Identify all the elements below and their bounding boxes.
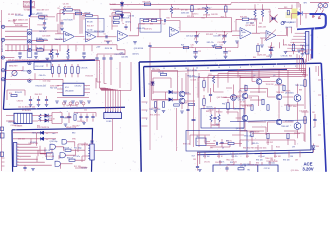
svg-text:ZD75 BC184: ZD75 BC184	[187, 70, 197, 72]
svg-text:R92 1K: R92 1K	[217, 156, 224, 158]
ground G28	[198, 170, 202, 172]
svg-text:R12 4K7: R12 4K7	[114, 10, 121, 12]
svg-text:R21 1K: R21 1K	[9, 121, 16, 123]
wire thick stub left	[297, 28, 314, 29]
svg-text:8: 8	[240, 67, 241, 69]
svg-text:ZD75 10K: ZD75 10K	[15, 15, 24, 17]
wire d30 stub	[313, 144, 315, 153]
wire tone row	[172, 18, 232, 32]
svg-text:C90 2K2: C90 2K2	[74, 85, 81, 87]
capacitor C76	[213, 117, 216, 118]
wire diode string	[121, 1, 123, 22]
svg-text:R5: R5	[58, 8, 60, 10]
ground G5	[195, 41, 199, 43]
svg-text:J5: J5	[310, 35, 312, 37]
svg-text:ZD45 22K: ZD45 22K	[258, 27, 267, 29]
svg-text:D25 0.22: D25 0.22	[186, 36, 193, 38]
svg-text:D82 47u: D82 47u	[207, 42, 214, 44]
svg-text:D17 100p: D17 100p	[251, 165, 259, 167]
capacitor C12	[164, 19, 165, 22]
capacitor C23 flat	[223, 52, 228, 53]
pot VOL	[12, 71, 17, 76]
svg-text:ZD65 2K2: ZD65 2K2	[32, 133, 40, 135]
svg-text:C5: C5	[104, 34, 106, 36]
svg-text:ZD74 100p: ZD74 100p	[39, 39, 48, 41]
capacitor C52	[79, 116, 82, 117]
wire bus fan lines	[238, 68, 306, 69]
capacitor C5	[106, 35, 107, 38]
gate IC5A	[50, 144, 55, 149]
wire input bus	[23, 8, 35, 16]
resistor R41 vertical	[261, 10, 263, 17]
resistor R3	[37, 39, 44, 41]
wire bus fan right risers	[296, 54, 298, 69]
ground G23	[82, 123, 86, 125]
wire mid drop	[237, 42, 239, 48]
svg-text:C86: C86	[290, 156, 293, 158]
svg-text:C36 10K: C36 10K	[81, 67, 89, 69]
ground G20	[79, 101, 83, 103]
svg-text:C12 1K: C12 1K	[264, 168, 271, 170]
variable cap VC1	[194, 36, 198, 37]
svg-text:D10 100p: D10 100p	[43, 81, 51, 83]
transformer T1	[14, 113, 32, 123]
svg-text:D2: D2	[46, 139, 48, 141]
svg-text:R8 10K: R8 10K	[85, 12, 92, 14]
svg-text:D11 560R: D11 560R	[299, 111, 308, 113]
svg-text:D1: D1	[46, 133, 48, 135]
ground G15	[194, 56, 198, 58]
wire mic row 2	[5, 35, 27, 37]
transistor Q6	[242, 93, 248, 99]
svg-text:10: 10	[218, 67, 220, 69]
svg-text:R45: R45	[253, 57, 256, 59]
svg-text:TP7: TP7	[210, 147, 213, 149]
ground G25	[154, 111, 158, 113]
svg-text:ZD72 1N4148: ZD72 1N4148	[146, 19, 157, 21]
svg-text:ZD36 560R: ZD36 560R	[50, 86, 60, 88]
svg-text:TR27 560R: TR27 560R	[63, 19, 73, 21]
wire top bus A	[110, 3, 231, 4]
wire row link	[74, 113, 96, 117]
svg-text:TR40 2K2: TR40 2K2	[39, 19, 47, 21]
svg-text:Q96 4K7: Q96 4K7	[289, 22, 296, 24]
diode D3	[120, 2, 123, 5]
wire above preamp border	[6, 59, 95, 61]
svg-text:R26: R26	[181, 45, 184, 47]
svg-text:C60 47u: C60 47u	[39, 75, 46, 77]
transistor Q7	[276, 94, 282, 100]
svg-text:TR12 100n: TR12 100n	[295, 85, 304, 87]
wire ladder mesh 3	[279, 84, 298, 138]
module box FX	[34, 62, 51, 69]
svg-text:R20 0.22: R20 0.22	[15, 92, 22, 94]
svg-text:ZD46 560R: ZD46 560R	[300, 45, 310, 47]
op-amp U1B	[86, 32, 96, 42]
capacitor C17	[102, 58, 105, 59]
svg-text:C1 22K: C1 22K	[190, 80, 197, 82]
capacitor C15	[82, 53, 85, 54]
wire fan from J7	[17, 143, 31, 145]
wire power box verticals	[240, 70, 288, 135]
wire q legs	[181, 78, 183, 109]
capacitor C50 elec	[60, 116, 64, 117]
resistor R81a zig	[218, 115, 220, 122]
capacitor C95	[220, 142, 223, 143]
ground G17	[55, 101, 59, 103]
wire right column mesh	[302, 69, 309, 142]
capacitor C42	[45, 99, 48, 100]
capacitor C60	[23, 167, 26, 168]
svg-text:TR18 10K: TR18 10K	[276, 92, 285, 94]
wire mic row 4	[5, 49, 58, 52]
svg-text:R105: R105	[276, 147, 280, 149]
wire stage link right	[139, 19, 161, 24]
connector left edge lower	[0, 133, 4, 138]
wire J5 bottom tails	[306, 54, 311, 62]
svg-text:INPUT PCB: INPUT PCB	[2, 41, 4, 52]
svg-text:C44 10u R55 4K7 C45: C44 10u R55 4K7 C45	[18, 107, 35, 109]
pot P3 small	[281, 22, 284, 25]
svg-text:Q11 2K2: Q11 2K2	[121, 57, 128, 59]
svg-text:D79 10K: D79 10K	[203, 15, 211, 17]
svg-text:R22: R22	[202, 18, 205, 20]
diode D23 filled	[151, 82, 154, 85]
svg-text:ZD94 100p: ZD94 100p	[81, 144, 90, 146]
svg-text:C63 1K: C63 1K	[208, 109, 215, 111]
capacitor C83	[196, 166, 199, 167]
wire ladder mesh 4	[236, 89, 276, 132]
diode D30	[312, 146, 315, 149]
capacitor C54	[91, 116, 94, 117]
transistor Q4	[256, 79, 262, 85]
wire speaker pair	[198, 152, 200, 166]
jack column J2 switching	[27, 30, 32, 58]
svg-text:2: 2	[146, 111, 147, 113]
ground G19	[71, 101, 75, 103]
ground G18	[63, 101, 67, 103]
resistor R80a zig	[210, 115, 212, 122]
transistor Q11 output	[294, 123, 301, 130]
transistor Q1	[179, 91, 185, 97]
svg-text:14: 14	[174, 68, 176, 70]
jack J1 input	[1, 25, 4, 28]
wire right border ticks	[318, 80, 321, 135]
resistor R8 fb	[86, 14, 93, 16]
svg-text:TR93 4K7: TR93 4K7	[21, 71, 29, 73]
capacitor C31	[301, 49, 304, 50]
ground G9	[282, 22, 286, 24]
wire fan into J5	[295, 32, 304, 34]
svg-text:TR12 22K: TR12 22K	[226, 159, 235, 161]
wire fb U3A	[236, 19, 260, 33]
wire left edge ticks	[2, 158, 5, 166]
svg-text:C22: C22	[198, 51, 201, 53]
svg-text:ZD84 4K7: ZD84 4K7	[283, 44, 291, 46]
svg-text:C87: C87	[295, 159, 298, 161]
wire diff out	[185, 73, 195, 101]
svg-text:6: 6	[262, 66, 263, 68]
ground G12	[269, 55, 273, 57]
wire IC pins	[57, 86, 90, 93]
transistor Q2	[179, 98, 185, 104]
resistor R79b box	[174, 104, 180, 106]
diode D4	[120, 15, 123, 18]
svg-text:SW1 PAD: SW1 PAD	[15, 24, 24, 27]
connector J5 header	[306, 32, 309, 55]
highlight yellow patch main	[292, 9, 298, 19]
wire U2B out	[180, 31, 232, 33]
svg-text:Q58 2K2: Q58 2K2	[266, 142, 273, 144]
capacitor C51 elec	[67, 116, 71, 117]
connector left edge upper	[0, 127, 3, 131]
svg-text:Q4: Q4	[253, 75, 255, 77]
diode D21	[169, 98, 172, 101]
wire jack feed	[29, 18, 31, 30]
connector left edge lower 2	[0, 152, 3, 156]
wire inner right bundle	[316, 66, 319, 76]
svg-text:R11 100p: R11 100p	[74, 148, 82, 150]
diode D8 blue	[298, 11, 302, 15]
svg-text:ZD66 47K: ZD66 47K	[137, 28, 146, 30]
wire bundle top feeds	[96, 62, 131, 90]
resistor R16 vertical	[51, 49, 53, 56]
svg-text:TR54 1K: TR54 1K	[44, 116, 52, 118]
sub box relay B	[186, 131, 247, 152]
connector J7 footswitch	[13, 143, 16, 167]
op-amp U2B	[170, 27, 180, 37]
wire bus B	[110, 9, 270, 22]
wire preamp top stub	[95, 60, 100, 66]
svg-text:R65 10K: R65 10K	[63, 147, 70, 149]
svg-text:FX LOOP: FX LOOP	[36, 66, 45, 68]
ground G14	[212, 46, 216, 48]
svg-text:C9 1K: C9 1K	[73, 113, 79, 115]
resistor R101 v	[245, 85, 247, 91]
wire thick output hook	[310, 14, 326, 28]
connector J8 on border	[90, 144, 94, 160]
node dot tone 1	[196, 31, 197, 32]
svg-text:R95 10K: R95 10K	[283, 159, 290, 161]
resistor R51 v	[58, 67, 60, 74]
pot P2 top right	[323, 3, 327, 7]
ground G7	[235, 41, 239, 43]
svg-text:Q5: Q5	[273, 75, 275, 77]
pot P1 top right	[318, 3, 322, 7]
diode LED2	[40, 137, 43, 140]
svg-text:C11 10K: C11 10K	[181, 102, 189, 104]
capacitor C72	[186, 109, 189, 110]
resistor R103 v	[283, 85, 285, 91]
resistor R81 v	[267, 105, 269, 111]
wire fb U2A	[112, 13, 130, 31]
svg-text:4: 4	[284, 66, 285, 68]
LED indicator circles	[63, 102, 66, 105]
capacitor C14	[34, 53, 37, 54]
capacitor C1	[49, 53, 52, 54]
svg-text:Q46 0.22: Q46 0.22	[218, 35, 225, 37]
capacitor C4	[60, 23, 63, 24]
ground G11	[297, 50, 301, 52]
svg-text:R80 1K: R80 1K	[206, 111, 212, 113]
wire U3A link	[232, 31, 240, 36]
resistor R85 v	[287, 133, 289, 139]
wire vas mesh	[214, 84, 234, 109]
box power amp inner right border	[310, 68, 311, 151]
ground G10	[284, 52, 288, 54]
jack J1b input	[1, 38, 4, 41]
svg-text:5: 5	[273, 66, 274, 68]
svg-text:R89 47u: R89 47u	[252, 143, 259, 145]
resistor R26 box	[183, 47, 189, 49]
svg-text:C56 1M: C56 1M	[128, 15, 135, 17]
block outline diff pair	[152, 71, 178, 101]
ground G6	[223, 41, 227, 43]
op-amp U2A	[118, 31, 128, 41]
svg-text:OUT: OUT	[192, 156, 195, 158]
capacitor C18	[109, 58, 112, 59]
wire connector tail	[94, 119, 113, 151]
resistor R79 box	[189, 103, 195, 105]
wire sub B mesh	[190, 135, 244, 147]
svg-text:C23: C23	[228, 51, 231, 53]
svg-text:Q91 BC184: Q91 BC184	[134, 48, 143, 50]
resistor R65 box	[65, 149, 71, 151]
resistor R66 box	[69, 159, 75, 161]
wire U3B out	[277, 28, 287, 36]
capacitor C30	[269, 49, 272, 50]
svg-text:D7: D7	[269, 12, 271, 14]
node input junction	[29, 15, 31, 17]
svg-text:R6 47K: R6 47K	[75, 11, 82, 13]
highlight yellow patch small	[286, 12, 292, 18]
svg-text:C70 100p: C70 100p	[153, 69, 160, 71]
diode D10	[45, 114, 48, 117]
svg-text:C99: C99	[292, 147, 295, 149]
wire thick supply rail	[210, 69, 287, 71]
capacitor C82	[216, 142, 217, 145]
capacitor C1b	[43, 23, 46, 24]
capacitor C89 in sub box	[225, 168, 228, 169]
svg-text:C86 1M: C86 1M	[17, 100, 24, 102]
svg-text:R44 2K2: R44 2K2	[35, 94, 42, 96]
wire bus fan left drops	[237, 70, 239, 78]
capacitor C9 box	[114, 17, 120, 20]
ground G1b	[43, 27, 47, 29]
box power amp outer top right step	[302, 59, 305, 63]
capacitor C10 box	[114, 21, 120, 23]
svg-text:TR17 100n: TR17 100n	[288, 106, 297, 108]
resistor R7 fb	[66, 9, 73, 11]
wire step rail 2	[97, 50, 125, 55]
resistor R90 box	[228, 142, 234, 144]
svg-text:D7 1K: D7 1K	[240, 102, 246, 104]
ground G4	[133, 42, 137, 44]
svg-text:R100: R100	[233, 162, 237, 164]
svg-text:R35 10K: R35 10K	[64, 118, 72, 120]
svg-text:Q92 BC184: Q92 BC184	[245, 25, 254, 27]
resistor R80 v	[251, 105, 253, 111]
resistor R17 vertical	[67, 49, 69, 56]
block outline mixer B	[140, 18, 161, 32]
svg-text:D45 BC184: D45 BC184	[45, 156, 54, 158]
diode D20	[169, 90, 172, 93]
svg-text:D77 10K: D77 10K	[181, 9, 189, 11]
svg-text:Q55 100n: Q55 100n	[291, 170, 299, 172]
svg-text:ZD25 22K: ZD25 22K	[20, 20, 29, 22]
resistor R97 box	[238, 168, 244, 170]
box preamp border	[3, 60, 125, 109]
wire mid column 3	[198, 73, 200, 147]
svg-text:R91 10K: R91 10K	[203, 156, 210, 158]
wire fan risers J7	[31, 138, 59, 162]
svg-text:C68 22K: C68 22K	[211, 14, 219, 16]
resistor R70 box	[161, 73, 167, 75]
svg-text:D93 47K: D93 47K	[182, 93, 190, 95]
wire step rail 1	[101, 45, 125, 50]
wire left inner stubs	[142, 102, 148, 126]
wire xfmr leads	[6, 116, 38, 122]
resistor R20 vertical	[170, 7, 172, 14]
svg-text:JRC4558: JRC4558	[65, 91, 74, 93]
gate IC5B	[60, 153, 65, 158]
ground G8	[260, 45, 264, 47]
wire U1A input	[55, 24, 64, 39]
svg-text:D77 47u: D77 47u	[73, 156, 80, 158]
transistor Q9	[242, 115, 248, 121]
svg-text:C12: C12	[163, 24, 166, 26]
svg-text:D68 BC184: D68 BC184	[29, 143, 38, 145]
svg-text:C78 10K: C78 10K	[281, 55, 289, 57]
wire fb loop U1B	[82, 16, 103, 37]
svg-text:R72 1M: R72 1M	[38, 25, 45, 27]
resistor R75 v	[203, 99, 205, 106]
wire led feeds	[13, 133, 58, 146]
svg-text:R90: R90	[226, 141, 229, 143]
wire input top link	[14, 20, 28, 24]
transistor Q3	[231, 95, 237, 101]
svg-text:Q44 1N4148: Q44 1N4148	[66, 105, 76, 107]
svg-text:3.20V: 3.20V	[302, 166, 313, 171]
svg-text:C85 47n: C85 47n	[231, 156, 237, 158]
capacitor C11	[124, 26, 127, 27]
resistor R56 h	[11, 94, 17, 96]
resistor R89 v	[304, 117, 306, 124]
svg-text:9: 9	[229, 67, 230, 69]
svg-text:D20 560R: D20 560R	[42, 35, 51, 37]
wire lower right extra	[252, 127, 304, 150]
resistor R60 v	[39, 114, 41, 121]
diode LED1	[40, 131, 43, 134]
svg-text:C90 100n: C90 100n	[215, 162, 222, 164]
svg-text:1: 1	[146, 103, 147, 105]
svg-text:R30 220K: R30 220K	[143, 1, 152, 3]
scan speckle	[0, 20, 2, 23]
box power amp inner border left	[143, 67, 146, 97]
jack column inside box	[28, 61, 31, 64]
svg-text:TR26 1M: TR26 1M	[85, 75, 93, 77]
wire U3B in	[260, 33, 266, 44]
wire tone row 2	[179, 21, 181, 31]
wire top right rail	[231, 3, 301, 28]
resistor R82 v	[287, 105, 289, 111]
svg-text:Q60 560R: Q60 560R	[233, 108, 242, 110]
svg-text:Q8 47u: Q8 47u	[125, 22, 131, 24]
wire fan risers	[280, 27, 292, 48]
svg-text:ZD7 4K7: ZD7 4K7	[32, 14, 39, 16]
resistor R53 v	[71, 67, 73, 74]
resistor R61 box	[74, 115, 76, 121]
